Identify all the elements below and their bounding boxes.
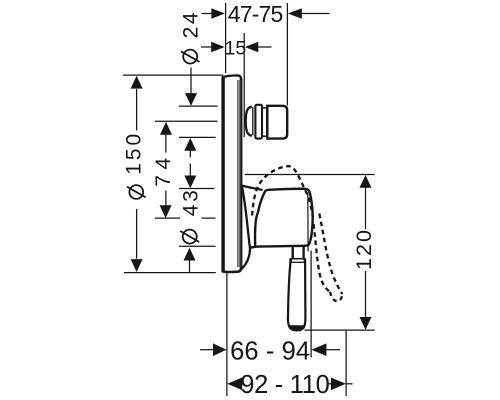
arrowhead 15 right: [245, 42, 258, 53]
arrowhead D43 lower up: [184, 248, 196, 261]
knob flange: [255, 105, 262, 139]
knob neck cap: [246, 107, 252, 136]
escutcheon plate bottom edge: [222, 267, 241, 272]
dimension stem D150: [136, 89, 138, 259]
wire extension line lever tip 66-94: [310, 251, 312, 358]
handle knob face line: [307, 193, 309, 252]
label 15: [225, 37, 247, 59]
arrowhead D74 up: [160, 122, 172, 135]
wire extension line knob top y106: [179, 105, 218, 107]
dimension 66-94 line: [200, 349, 340, 351]
lever neck: [293, 246, 304, 259]
wire extension line 92-110 right: [345, 331, 347, 396]
dimension stem D24: [190, 68, 192, 95]
label 92 - 110: [240, 371, 330, 399]
svg-text:92 - 110: 92 - 110: [240, 371, 330, 399]
svg-text:24: 24: [180, 12, 203, 38]
label D74 rotated: [152, 157, 175, 186]
handle knob right edge: [310, 194, 313, 242]
dimension 15 line: [201, 46, 272, 48]
label D43 rotated: [179, 190, 202, 243]
escutcheon plate left edge: [221, 77, 224, 272]
arrowhead D43 upper down: [184, 176, 196, 189]
dimension 47-75 line: [202, 13, 330, 15]
arrowhead 66-94 left: [213, 343, 227, 356]
label 66 - 94: [230, 337, 310, 365]
wire extension line y246.3: [179, 245, 216, 247]
label D150 rotated: [123, 134, 146, 199]
dimension 92-110 line: [242, 383, 353, 385]
svg-text:47-75: 47-75: [228, 1, 284, 27]
wire wall extension line bottom: [226, 273, 228, 397]
svg-text:43: 43: [179, 190, 202, 216]
wire extension line 15 front: [243, 33, 245, 137]
wire extension line y188.5: [179, 188, 214, 190]
handle knob top edge: [266, 189, 310, 194]
arrowhead 47-75 left: [211, 8, 225, 19]
lever grip right edge: [304, 263, 306, 319]
handle knob left edge: [255, 190, 266, 246]
label 120 rotated: [352, 230, 376, 270]
arrowhead D43 top up: [184, 138, 196, 151]
wire extension line sleeve bottom y218.1: [155, 217, 216, 219]
arrowhead 120 up: [360, 175, 372, 188]
escutcheon plate top edge: [222, 75, 241, 80]
lever collar: [290, 259, 306, 263]
wire extension line knob bottom y137.4: [179, 136, 216, 138]
wire extension line plate top y74.5: [123, 74, 223, 76]
arrowhead 47-75 right: [288, 8, 302, 19]
arrowhead 66-94 right: [311, 343, 326, 356]
wire extension line body top y174.5: [245, 174, 375, 176]
dashed knob rotated outline: [252, 166, 313, 220]
arrowhead D150 down: [131, 259, 143, 272]
escutcheon plate face outer: [241, 79, 243, 268]
dashed lever right edge: [319, 214, 342, 295]
lever grip left edge: [288, 263, 290, 319]
wire extension line sleeve top y121.3: [155, 120, 218, 122]
lever grip cap: [288, 318, 306, 330]
knob cylinder: [262, 108, 267, 136]
wire extension line lever bottom y330.1: [305, 329, 375, 331]
knob neck cap edge: [252, 107, 254, 135]
dashed lever tip cap: [330, 292, 342, 301]
svg-text:15: 15: [225, 37, 247, 59]
label 47-75: [228, 1, 284, 27]
dimension stem D74: [165, 134, 167, 209]
svg-text:74: 74: [152, 157, 175, 186]
wire extension line knob front: [286, 3, 288, 106]
escutcheon plate face mid: [239, 80, 241, 268]
escutcheon plate face inner: [237, 80, 239, 267]
arrowhead D150 up: [131, 76, 143, 89]
wire wall extension line top: [225, 3, 227, 73]
arrowhead 92-110 left: [227, 378, 242, 391]
svg-text:66 - 94: 66 - 94: [230, 337, 310, 365]
arrowhead D24 down: [185, 93, 197, 106]
svg-text:120: 120: [352, 230, 376, 270]
body bottom edge: [250, 241, 310, 248]
dimension stem 120: [365, 188, 367, 318]
label D24 rotated: [180, 12, 203, 64]
wire extension line plate bottom y272.6: [124, 272, 216, 274]
arrowhead 120 down: [360, 317, 372, 330]
arrowhead 15 left: [211, 42, 225, 53]
dashed lever left edge: [314, 224, 330, 292]
dimension stem D43 lower: [189, 259, 191, 272]
arrowhead 92-110 right: [331, 378, 346, 391]
body sleeve outer edge: [241, 186, 250, 269]
arrowhead D74 down: [160, 205, 172, 218]
dimension stem D43 upper: [189, 150, 191, 177]
body sleeve top edge: [241, 185, 263, 190]
shut-off knob: [267, 106, 287, 139]
svg-text:150: 150: [123, 134, 146, 175]
